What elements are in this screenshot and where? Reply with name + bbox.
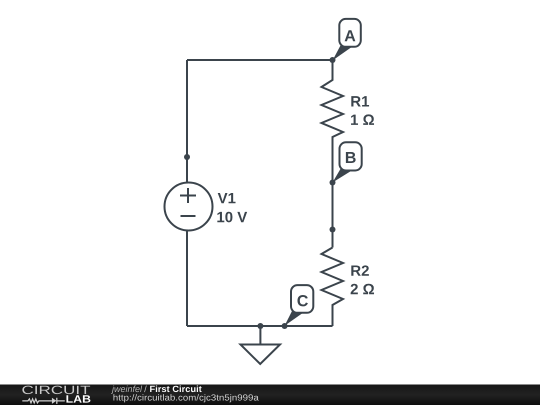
resistor R1: [322, 60, 344, 183]
footer author name: [111, 385, 142, 393]
node B flag tail: [333, 168, 352, 183]
CircuitLab logo diode bar: [57, 398, 65, 404]
node B flag box: [340, 142, 362, 170]
node C flag box: [291, 285, 313, 313]
node C dot: [282, 323, 288, 329]
label R2: [351, 265, 369, 275]
wire left lower: [186, 231, 188, 327]
ground junction dot: [257, 323, 263, 329]
label R1: [351, 96, 369, 106]
footer circuit title: [150, 385, 202, 392]
label V1: [218, 193, 236, 203]
V1 plus sign: [180, 188, 196, 203]
value V1 10 V: [217, 212, 247, 223]
wire top: [187, 59, 333, 61]
footer bar: [0, 385, 540, 405]
junction dot left wire: [184, 154, 190, 160]
ground stem: [259, 326, 261, 345]
node B letter: [346, 152, 356, 163]
node C letter: [297, 295, 307, 306]
node A flag tail: [333, 45, 352, 61]
value R2 2 ohm: [351, 284, 374, 294]
voltage source V1 circle: [165, 183, 213, 231]
node A flag box: [339, 19, 361, 47]
CircuitLab logo word CIRCUIT: [22, 386, 90, 395]
wire bottom: [187, 325, 333, 327]
wire middle right: [332, 183, 334, 248]
footer url: [113, 394, 258, 402]
CircuitLab logo word LAB: [66, 395, 90, 402]
junction dot middle: [330, 227, 336, 233]
node A dot: [330, 57, 336, 63]
footer separator slash: [144, 385, 147, 392]
ground triangle: [241, 345, 281, 365]
wire left upper: [186, 60, 188, 183]
V1 minus sign: [181, 215, 196, 217]
CircuitLab logo diode: [52, 398, 57, 404]
node B dot: [330, 180, 336, 186]
node A letter: [345, 30, 356, 41]
resistor R2: [322, 248, 344, 327]
CircuitLab logo circuit line with resistor: [22, 399, 52, 403]
node C flag tail: [285, 310, 302, 326]
value R1 1 ohm: [351, 114, 374, 124]
